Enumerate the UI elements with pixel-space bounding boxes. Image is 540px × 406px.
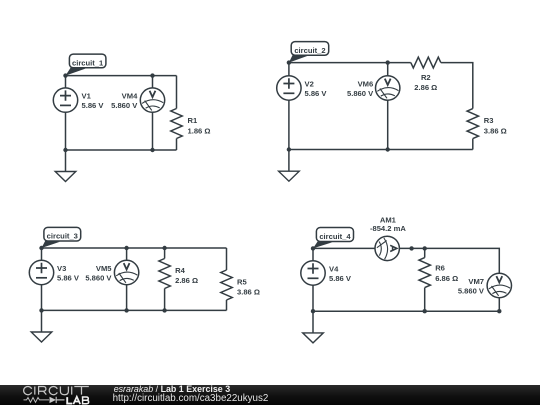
node: circuit 3 top-left junction [39, 246, 43, 250]
svg-text:circuit_3: circuit_3 [47, 232, 78, 241]
logo letter C [24, 387, 32, 395]
logo letter U [60, 387, 68, 395]
ground: circuit 2 [279, 150, 300, 182]
label V1 value [82, 92, 105, 110]
wire: V3 branch vertical [41, 248, 43, 310]
node: VM5 top junction [124, 246, 128, 250]
svg-text:VM7: VM7 [468, 277, 484, 286]
svg-text:R6: R6 [435, 263, 445, 272]
svg-text:R1: R1 [188, 116, 198, 125]
voltmeter VM7 [487, 273, 511, 297]
wire: circuit 4 bottom rail [313, 310, 499, 312]
wire: circuit 4 top rail left [313, 247, 375, 249]
wire: V2 branch vertical [288, 63, 290, 150]
voltage source V1 [53, 88, 77, 112]
wire: circuit 2 top rail left [289, 62, 411, 64]
node label circuit_4 [313, 228, 354, 249]
node: VM7 bottom junction [497, 309, 501, 313]
svg-text:circuit_1: circuit_1 [72, 59, 104, 68]
label VM7 value [458, 277, 485, 295]
wire: circuit 1 bottom rail [66, 149, 177, 151]
node: circuit 3 bottom-left junction [39, 308, 43, 312]
node: R4 bottom junction [162, 308, 166, 312]
node: R6 bottom junction [423, 309, 427, 313]
node label circuit_3 [42, 227, 81, 248]
node: circuit 4 top-left junction [311, 246, 315, 250]
ground: circuit 4 [303, 311, 324, 343]
resistor R6 [419, 258, 430, 288]
voltmeter VM4 [140, 88, 164, 112]
wire: circuit 4 top rail right + right branch down [399, 248, 499, 273]
node: VM4 top junction [150, 73, 154, 77]
voltage source V3 [29, 260, 53, 284]
resistor R3 [467, 109, 478, 139]
logo letter I2 [71, 387, 73, 395]
node: circuit 2 bottom-left junction [287, 147, 291, 151]
CircuitLab logo [18, 385, 118, 406]
svg-text:2.86 Ω: 2.86 Ω [175, 276, 198, 285]
svg-text:R3: R3 [484, 116, 494, 125]
svg-text:1.86 Ω: 1.86 Ω [188, 126, 211, 135]
resistor R1 [171, 109, 182, 139]
wire: VM4 branch vertical [152, 76, 154, 150]
wire: R6 branch vertical [424, 248, 426, 311]
svg-text:R4: R4 [175, 266, 185, 275]
label VM6 value [347, 80, 374, 98]
label VM4 value [111, 92, 138, 110]
label V2 value [305, 80, 328, 98]
node: VM5 bottom junction [124, 308, 128, 312]
wire: circuit 2 top rail right + right branch [441, 63, 473, 109]
wire: circuit 3 bottom rail [42, 309, 227, 311]
node: VM4 bottom junction [150, 148, 154, 152]
svg-text:V4: V4 [329, 265, 339, 274]
svg-text:5.86 V: 5.86 V [57, 273, 80, 282]
node: VM6 top junction [386, 60, 390, 64]
node: circuit 1 top-left junction [63, 73, 67, 77]
svg-text:5.86 V: 5.86 V [329, 274, 352, 283]
wire: R5 branch vertical [226, 248, 228, 310]
svg-text:5.86 V: 5.86 V [305, 89, 328, 98]
label V4 value [329, 265, 352, 283]
wire: VM7 to bottom [498, 298, 500, 312]
node: circuit 2 top-left junction [287, 60, 291, 64]
node: VM6 bottom junction [386, 147, 390, 151]
svg-text:2.86 Ω: 2.86 Ω [414, 83, 437, 92]
svg-text:5.860 V: 5.860 V [347, 89, 374, 98]
svg-text:VM6: VM6 [358, 80, 374, 89]
resistor R2 [411, 57, 441, 68]
wire: R3 to bottom [472, 139, 474, 150]
wire: circuit 1 top rail [66, 75, 177, 77]
svg-text:6.86 Ω: 6.86 Ω [435, 274, 458, 283]
label R2 value [414, 73, 437, 92]
label AM1 value [370, 215, 406, 233]
resistor R5 [221, 270, 232, 300]
footer url line [113, 393, 269, 404]
voltmeter VM6 [376, 76, 400, 100]
voltage source V4 [301, 261, 325, 285]
logo LAB text [67, 397, 89, 405]
svg-text:V1: V1 [82, 92, 92, 101]
svg-text:3.86 Ω: 3.86 Ω [484, 126, 507, 135]
ground: circuit 1 [55, 150, 76, 182]
wire: R1 branch vertical [176, 76, 178, 150]
svg-text:-854.2 mA: -854.2 mA [370, 224, 406, 233]
node: circuit 1 bottom-left junction [63, 148, 67, 152]
label R6 value [435, 263, 458, 283]
node: R4 top junction [162, 246, 166, 250]
logo letter I [34, 387, 36, 395]
svg-text:circuit_2: circuit_2 [294, 46, 325, 55]
logo diode [50, 397, 57, 403]
wire: V4 branch vertical [312, 248, 314, 311]
label R1 value [188, 116, 211, 135]
label V3 value [57, 264, 80, 282]
svg-text:VM5: VM5 [96, 264, 112, 273]
svg-text:R2: R2 [421, 73, 431, 82]
logo letter R [39, 387, 47, 395]
wire: R4 branch vertical [164, 248, 166, 310]
footer title line [114, 384, 230, 394]
wire: circuit 3 top rail [42, 247, 227, 249]
svg-text:5.860 V: 5.860 V [458, 287, 485, 296]
logo resistor squiggle [24, 398, 50, 403]
wire: VM6 branch vertical [387, 63, 389, 150]
label VM5 value [85, 264, 112, 282]
voltmeter VM5 [114, 260, 138, 284]
wire: V1 branch vertical [65, 76, 67, 150]
label R5 value [237, 278, 260, 297]
wire: VM5 branch vertical [126, 248, 128, 310]
node: ammeter output junction [409, 246, 413, 250]
svg-text:5.860 V: 5.860 V [85, 273, 112, 282]
svg-text:circuit_4: circuit_4 [319, 232, 351, 241]
svg-text:V3: V3 [57, 264, 66, 273]
ground: circuit 3 [31, 310, 52, 342]
node: R6 top junction [423, 246, 427, 250]
svg-text:5.86 V: 5.86 V [82, 101, 105, 110]
wire: circuit 2 bottom rail [289, 149, 473, 151]
ammeter AM1 [375, 236, 399, 260]
logo letter T [74, 387, 89, 395]
svg-text:V2: V2 [305, 80, 314, 89]
svg-text:3.86 Ω: 3.86 Ω [237, 288, 260, 297]
svg-text:R5: R5 [237, 278, 247, 287]
node label circuit_2 [289, 42, 329, 63]
label R3 value [484, 116, 507, 135]
voltage source V2 [277, 76, 301, 100]
label R4 value [175, 266, 198, 285]
resistor R4 [159, 259, 170, 289]
node: circuit 4 bottom-left junction [311, 309, 315, 313]
node label circuit_1 [66, 54, 106, 76]
svg-text:VM4: VM4 [122, 92, 138, 101]
svg-text:5.860 V: 5.860 V [111, 101, 138, 110]
logo letter C2 [49, 387, 57, 395]
